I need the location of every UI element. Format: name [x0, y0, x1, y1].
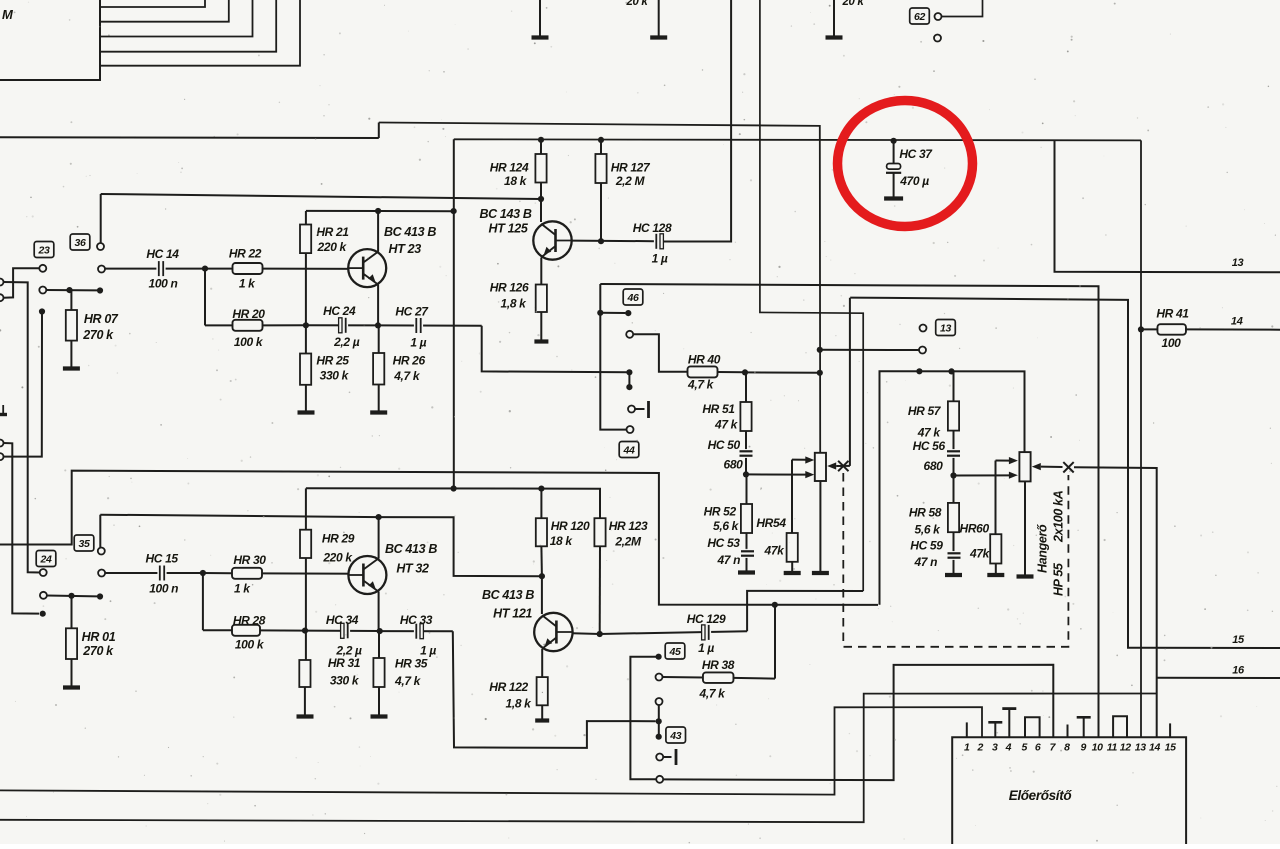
svg-text:20 k: 20 k [842, 0, 865, 8]
connector pin (edge) 3 [0, 440, 39, 614]
svg-text:2x100 kA: 2x100 kA [1052, 490, 1066, 543]
label HC59 [910, 539, 943, 553]
ground HR07 [63, 366, 80, 370]
wiper arrow right pot [1032, 463, 1063, 470]
svg-text:HC 37: HC 37 [899, 147, 933, 161]
ground HC59 [945, 573, 962, 577]
label 47k 51 [714, 418, 739, 432]
label 680 [724, 458, 744, 472]
label HR120 [551, 519, 590, 533]
resistor HR22 [205, 263, 363, 274]
connector pin (edge) 4 [0, 453, 4, 460]
capacitor HC59 [947, 550, 962, 574]
svg-text:HT 23: HT 23 [389, 242, 422, 256]
node 13sw [817, 347, 823, 353]
svg-text:HR 124: HR 124 [490, 161, 529, 175]
node HC14-HR22 [202, 266, 208, 272]
wire HR38 riser [774, 605, 776, 679]
capacitor HC128 [654, 233, 664, 249]
svg-text:HC 50: HC 50 [708, 438, 741, 452]
svg-text:Előerősítő: Előerősítő [1009, 788, 1073, 803]
svg-text:1 k: 1 k [239, 277, 256, 291]
label HC24 [323, 304, 356, 318]
capacitor HC24 [306, 317, 378, 333]
wire pin7 path [663, 665, 1053, 780]
wire wiper to 16/pin14 [1074, 467, 1157, 737]
switch 44 contact [627, 426, 634, 433]
svg-text:47k: 47k [969, 547, 991, 561]
wire vertical x731 (HC128 riser) [663, 0, 731, 242]
label 330k b [330, 674, 360, 688]
resistor HR120 [536, 489, 547, 577]
resistor HR25 [300, 354, 311, 411]
node 46 c [626, 369, 632, 375]
svg-text:HR 52: HR 52 [704, 505, 737, 519]
arrow pot tap low r [1009, 472, 1018, 479]
svg-text:HC 34: HC 34 [326, 613, 359, 627]
svg-text:HR 26: HR 26 [393, 354, 426, 368]
resistor HR01 [66, 596, 77, 686]
svg-text:HC 27: HC 27 [395, 305, 429, 319]
label HR07 [84, 312, 119, 326]
wire step [378, 123, 380, 139]
pin 11-12 bridge [1113, 716, 1127, 737]
capacitor HC56 [946, 449, 961, 475]
wire wiper riser [849, 298, 851, 466]
label HC50 [708, 438, 741, 452]
svg-text:HR 07: HR 07 [84, 312, 119, 326]
switch 43 contact 4 [656, 776, 663, 783]
node 46 d [626, 384, 632, 390]
label HR127 [611, 161, 651, 175]
svg-text:270 k: 270 k [82, 644, 114, 658]
node HR124 top [538, 137, 544, 143]
svg-text:HC 14: HC 14 [146, 247, 179, 261]
node HT121 base node [539, 573, 545, 579]
wire net 13 [1055, 140, 1280, 272]
label HR41 [1156, 307, 1189, 321]
svg-text:13: 13 [1232, 257, 1244, 269]
svg-text:100 k: 100 k [234, 335, 264, 349]
node supply tap b [451, 485, 457, 491]
pin 9 T [1077, 717, 1091, 737]
label 100 [1162, 336, 1182, 350]
label HR124 [490, 161, 529, 175]
node HT23 emitter [375, 322, 381, 328]
node HR07 top [66, 287, 72, 293]
label HC15 [145, 552, 178, 566]
ground HC37 [884, 196, 903, 200]
wire HR21 column [305, 211, 307, 354]
label 1,8k b [506, 697, 533, 711]
wire bus line 4 from block [100, 0, 276, 52]
wiper arrow left pot [827, 462, 850, 469]
wire vertical to pin 13 [1140, 140, 1142, 737]
wire bus line 1 from block [100, 0, 205, 7]
label 16 [1232, 665, 1245, 677]
wire drop to HR20 [204, 269, 206, 326]
svg-text:680: 680 [924, 459, 944, 473]
wire bottom bus 1 [0, 707, 982, 794]
mechanical link (dashed) [843, 473, 1068, 647]
node HC24 line left [303, 322, 309, 328]
capacitor HC34 [305, 623, 380, 639]
svg-text:47 k: 47 k [917, 426, 942, 440]
svg-text:45: 45 [669, 646, 681, 658]
label 220k [317, 240, 348, 254]
switch 35 contact upper [98, 548, 105, 555]
label HR30 [233, 553, 266, 567]
label HR51 [702, 402, 735, 416]
label HR123 [609, 519, 648, 533]
label HT125 [489, 222, 529, 236]
svg-text:43: 43 [669, 730, 681, 742]
capacitor HC50 [739, 449, 754, 474]
potentiometer HP54 [815, 453, 826, 481]
svg-text:HR60: HR60 [960, 522, 990, 536]
label HC33 [400, 613, 433, 627]
label 2,2M t [615, 174, 646, 188]
label Eloerosito [1009, 788, 1073, 803]
resistor HR127 [595, 140, 606, 241]
svg-text:HR 35: HR 35 [395, 657, 428, 671]
ground HR26 [370, 410, 387, 414]
svg-text:8: 8 [1064, 742, 1070, 754]
svg-text:9: 9 [1081, 742, 1087, 754]
resistor HR41 [1141, 324, 1280, 335]
svg-text:14: 14 [1149, 742, 1160, 754]
switch 35 contact lower [98, 570, 105, 577]
switch contact box 36 [70, 234, 90, 250]
svg-text:4,7 k: 4,7 k [699, 687, 727, 701]
svg-text:330 k: 330 k [330, 674, 360, 688]
node riser b [40, 611, 46, 617]
svg-text:330 k: 330 k [320, 369, 350, 383]
label 1u 128 [652, 252, 668, 266]
switch 36 contact upper [97, 243, 104, 250]
svg-text:13: 13 [1135, 742, 1146, 754]
pin 3 T [988, 722, 1002, 737]
node 43 b [656, 734, 662, 740]
svg-text:4,7 k: 4,7 k [687, 378, 715, 392]
node HC37 top [891, 138, 897, 144]
transistor HT32 [348, 517, 386, 631]
capacitor HC27 [378, 318, 482, 334]
svg-text:47k: 47k [764, 544, 786, 558]
resistor HR26 [373, 325, 384, 410]
resistor HR29 [300, 530, 311, 660]
label HR54 [756, 516, 786, 530]
svg-text:HR 29: HR 29 [322, 532, 355, 546]
node HC15-HR30 [200, 570, 206, 576]
svg-text:36: 36 [75, 237, 86, 249]
switch 23 contact lower [39, 287, 97, 294]
svg-text:2,2M: 2,2M [614, 535, 642, 549]
svg-text:6: 6 [1035, 742, 1041, 754]
svg-text:HC 59: HC 59 [910, 539, 943, 553]
svg-text:2,2 µ: 2,2 µ [335, 644, 362, 658]
node riser top [39, 308, 45, 314]
label 5,6k [713, 519, 740, 533]
resistor HR20 [205, 320, 306, 331]
label 1u [410, 335, 426, 349]
label HC14 [146, 247, 179, 261]
svg-text:HR 58: HR 58 [909, 506, 942, 520]
svg-text:HR 57: HR 57 [908, 404, 942, 418]
arrow pot tap low [805, 471, 814, 478]
label 20k (cut) [626, 0, 649, 8]
node HC34 left [302, 628, 308, 634]
label 18k t [504, 174, 528, 188]
resistor HR124 [535, 140, 546, 199]
ground pot [812, 571, 829, 575]
wire bus line 2 from block [100, 0, 229, 22]
switch 24 contact lower [40, 592, 97, 599]
pin 15 stub [1169, 723, 1171, 737]
switch contact box 44 [619, 442, 639, 458]
svg-text:HR54: HR54 [756, 516, 786, 530]
capacitor HC15 [157, 565, 203, 581]
svg-text:HR 41: HR 41 [1156, 307, 1189, 321]
svg-text:HR 127: HR 127 [611, 161, 651, 175]
label 220k b [322, 551, 353, 565]
svg-text:BC 143 B: BC 143 B [479, 207, 531, 221]
arrow pot tap up r [1009, 457, 1018, 464]
ground stub 2 [650, 0, 667, 38]
svg-text:HT 32: HT 32 [396, 562, 429, 576]
resistor HR60 [990, 461, 1001, 574]
wire input drop [100, 194, 102, 243]
label 4,7k 38 [699, 687, 727, 701]
label BC143B [479, 207, 531, 221]
capacitor HC53 [740, 549, 755, 571]
label HC129 [687, 612, 726, 626]
svg-text:1,8 k: 1,8 k [501, 297, 528, 311]
pin 5-6 bridge [1025, 717, 1040, 737]
label HR126 [490, 281, 529, 295]
label 47n r [913, 555, 937, 569]
svg-text:13: 13 [940, 322, 951, 334]
svg-text:14: 14 [1231, 316, 1243, 328]
label HC128 [633, 221, 672, 235]
wire 46 stub [628, 372, 630, 387]
label 18k b [550, 534, 574, 548]
connector block (top-left, cut off) [0, 0, 100, 80]
pin numbers 1-15 [964, 742, 1176, 754]
edge mark [0, 405, 7, 415]
svg-text:220 k: 220 k [317, 240, 348, 254]
svg-text:1 µ: 1 µ [420, 644, 436, 658]
resistor HR58 [948, 476, 959, 550]
node HT32 collector [376, 514, 382, 520]
svg-text:270 k: 270 k [82, 328, 114, 342]
svg-text:HR 25: HR 25 [316, 354, 349, 368]
label 4,7k 40 [687, 378, 715, 392]
wire input drop b [99, 515, 101, 548]
label HR38 [702, 658, 735, 672]
capacitor HC14 [156, 261, 205, 277]
switch contact box 24 [36, 551, 56, 567]
wire 13sw [820, 349, 919, 351]
wire bottom bus 2 [0, 694, 1156, 823]
wire HC129 out [747, 591, 863, 631]
svg-text:47 n: 47 n [913, 555, 937, 569]
switch 43 T-bar [675, 749, 678, 765]
pin 8 stub [1067, 725, 1069, 738]
node HR57 top [948, 368, 954, 374]
label 13 [1232, 257, 1244, 269]
switch 23 contact upper [4, 265, 47, 298]
switch 13 contact a [920, 325, 927, 332]
wire HR40 to pot [745, 371, 820, 373]
wire HR29 column [305, 488, 307, 529]
svg-text:11: 11 [1107, 742, 1118, 754]
svg-text:BC 413 B: BC 413 B [482, 588, 534, 602]
svg-text:HT 125: HT 125 [489, 222, 529, 236]
label BC413B c [482, 588, 534, 602]
svg-text:5,6 k: 5,6 k [713, 519, 740, 533]
resistor HR51 [740, 372, 751, 449]
wire bus line 5 from block [100, 0, 300, 66]
label HC27 [395, 305, 429, 319]
svg-text:20 k: 20 k [626, 0, 649, 8]
node HT23 collector [375, 208, 381, 214]
label 2x100kA (rotated) [1052, 490, 1066, 543]
svg-text:18 k: 18 k [550, 534, 574, 548]
wire right block top [880, 371, 1025, 605]
wire net 10 rail [600, 284, 1098, 737]
switch contact box 62 [910, 8, 930, 24]
svg-text:680: 680 [724, 458, 744, 472]
wire wiper bus to 15 [850, 298, 1280, 648]
label 47n [716, 553, 740, 567]
switch 62 contact a [935, 0, 983, 20]
switch 24 contact upper [40, 569, 47, 576]
switch contact box 35 [74, 535, 94, 551]
wire 43 stub [658, 705, 660, 737]
svg-text:15: 15 [1232, 634, 1245, 646]
node HR51 top [742, 369, 748, 375]
svg-text:1 µ: 1 µ [410, 335, 426, 349]
label HR40 [688, 353, 721, 367]
svg-text:1 µ: 1 µ [652, 252, 668, 266]
svg-text:5: 5 [1021, 742, 1027, 754]
svg-text:4,7 k: 4,7 k [394, 674, 422, 688]
svg-text:62: 62 [914, 11, 925, 23]
wire 46 feed [600, 284, 626, 430]
label 1k [239, 277, 256, 291]
label HR60 [960, 522, 990, 536]
svg-text:47 k: 47 k [714, 418, 739, 432]
resistor HR57 [948, 371, 959, 449]
label Hangero (rotated) [1036, 524, 1050, 573]
switch contact box 46 [623, 289, 643, 305]
svg-text:3: 3 [992, 742, 998, 754]
label 47k 57 [917, 426, 942, 440]
resistor HR122 [537, 677, 548, 718]
svg-text:HR 122: HR 122 [489, 680, 528, 694]
wire L2b rail [306, 488, 600, 518]
label HR57 [908, 404, 942, 418]
wire L2t collector rail [306, 210, 454, 212]
wire base row b [573, 632, 600, 635]
wire 46 row [600, 312, 625, 314]
wire 43 feed [453, 631, 656, 748]
switch 36 contact lower [98, 266, 105, 273]
label HR28 [233, 614, 266, 628]
switch 43 contact 3 [656, 754, 671, 761]
svg-text:HR 31: HR 31 [328, 656, 361, 670]
svg-text:1 k: 1 k [234, 582, 251, 596]
svg-text:12: 12 [1120, 742, 1131, 754]
label 20k (cut) 2 [842, 0, 865, 8]
svg-text:HR 38: HR 38 [702, 658, 735, 672]
label HR21 [316, 225, 349, 239]
node pot-top [817, 370, 823, 376]
label HT32 [396, 562, 429, 576]
svg-text:470 µ: 470 µ [899, 174, 929, 188]
switch contact box 23 [34, 242, 54, 258]
label 4,7k [393, 369, 421, 383]
svg-text:35: 35 [79, 538, 90, 550]
ground pot r [1017, 574, 1034, 578]
svg-text:Hangerő: Hangerő [1036, 524, 1050, 573]
switch contact box 45 [665, 643, 685, 659]
wire HT125 base row [572, 240, 655, 243]
label 5,6k r [915, 523, 942, 537]
svg-text:HR 28: HR 28 [233, 614, 266, 628]
node supply tap [451, 208, 457, 214]
svg-text:HC 56: HC 56 [913, 439, 946, 453]
label HC53 [707, 536, 740, 550]
resistor HR35 [373, 631, 384, 715]
svg-text:2,2 µ: 2,2 µ [333, 335, 360, 349]
node HR127 top [598, 137, 604, 143]
label 470u [899, 174, 929, 188]
node stub end [97, 287, 103, 293]
label HP55 (rotated) [1052, 562, 1066, 596]
connector pin (edge) 2 [0, 279, 40, 573]
label 2,2M b [614, 535, 642, 549]
label 15 [1232, 634, 1245, 646]
node 43 a [656, 718, 662, 724]
ground stub 1 [532, 0, 549, 38]
wire line A (left feed) [0, 136, 379, 139]
label 47k 54 [764, 544, 786, 558]
wire input line L1b2 [100, 515, 378, 517]
svg-text:HR 40: HR 40 [688, 353, 721, 367]
switch 13 contact b [919, 347, 926, 354]
svg-text:HR 22: HR 22 [229, 247, 262, 261]
svg-text:HR 123: HR 123 [609, 519, 648, 533]
resistor HR126 [536, 285, 547, 340]
highlight red circle around HC37 [838, 101, 973, 227]
potentiometer HP55 [1019, 452, 1030, 481]
label 100k b [235, 638, 265, 652]
node stub end b [97, 593, 103, 599]
label HR122 [489, 680, 528, 694]
svg-text:HC 53: HC 53 [707, 536, 740, 550]
switch contact box 43 [666, 727, 686, 743]
resistor HR21 [300, 225, 311, 254]
node HR123 bottom [597, 631, 603, 637]
wire supply riser x454 [453, 139, 455, 488]
pin 4 T [1002, 709, 1016, 738]
svg-text:23: 23 [38, 244, 50, 256]
ground HR122 [535, 718, 549, 722]
resistor HR31 [299, 660, 310, 715]
svg-text:15: 15 [1165, 742, 1176, 754]
